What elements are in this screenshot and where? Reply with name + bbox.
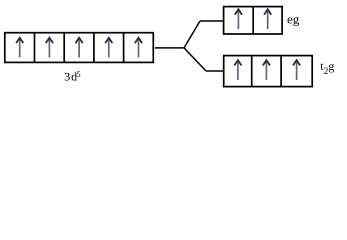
label 3d5 (64, 69, 80, 83)
wire diagonal down to t2g (184, 48, 206, 71)
electron arrow t2g2 (263, 60, 270, 80)
electron arrow t2g1 (234, 60, 241, 80)
electron arrow d5 (135, 38, 142, 58)
wire horizontal to t2g box (206, 70, 224, 72)
svg-text:3: 3 (64, 70, 70, 84)
electron arrow d1 (16, 38, 23, 58)
electron arrow d2 (46, 38, 53, 58)
wire from 3d row to branch point (155, 47, 184, 49)
orbital box t2g (3 cells) (224, 56, 313, 87)
electron arrow t2g3 (293, 60, 300, 80)
svg-text:g: g (328, 59, 334, 73)
electron arrow d3 (76, 38, 83, 58)
orbital box eg (2 cells) (224, 7, 283, 34)
orbital box row 3d (5 cells) (5, 33, 154, 63)
svg-text:eg: eg (287, 12, 300, 27)
wire horizontal to eg box (200, 20, 224, 22)
electron arrow d4 (105, 38, 112, 58)
electron arrow eg1 (235, 9, 242, 29)
wire diagonal up to eg (184, 21, 200, 48)
electron arrow eg2 (264, 9, 271, 29)
svg-text:5: 5 (76, 69, 80, 79)
label t2g (320, 59, 334, 76)
